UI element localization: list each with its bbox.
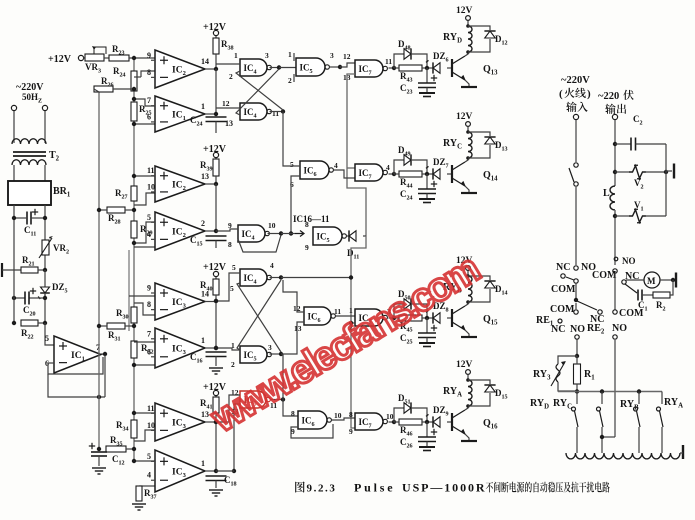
- label RYC contacts: [553, 398, 572, 411]
- junction R31 bus99: [97, 324, 101, 328]
- wire R out D: [394, 67, 399, 69]
- wire R26 right: [113, 88, 134, 90]
- cross wire latch1 b: [236, 71, 283, 110]
- wire contact RYB lower: [638, 427, 640, 453]
- wire collector D: [465, 52, 468, 56]
- pin 8 op 5: [147, 300, 151, 309]
- wire DZ to base C: [447, 173, 452, 175]
- relay coil RYD: [468, 26, 472, 52]
- svg-text:11: 11: [147, 404, 155, 413]
- pin 11 IC4b out: [272, 109, 279, 118]
- wire contact RYA lower: [661, 427, 663, 453]
- label D15: [495, 388, 508, 401]
- svg-text:12: 12: [343, 52, 351, 61]
- terminal +12V rail 4: [213, 390, 218, 395]
- caption figure number: [295, 482, 336, 495]
- nand gate IC5 b: [313, 227, 346, 245]
- svg-text:7: 7: [147, 329, 151, 338]
- relay coil RYC: [468, 132, 472, 158]
- pin 10 IC6c out: [334, 411, 342, 420]
- svg-text:9.2.3: 9.2.3: [307, 483, 337, 495]
- label R27: [115, 188, 128, 201]
- label D14: [495, 284, 508, 297]
- junction v291 on out wire: [289, 231, 293, 235]
- svg-text:COM: COM: [619, 308, 644, 319]
- contact RYD hook: [572, 407, 576, 411]
- contact COM re1 b: [574, 310, 578, 314]
- svg-text:NO: NO: [570, 324, 585, 335]
- label R44: [400, 177, 413, 190]
- wire BR1 out right: [44, 205, 46, 270]
- pin 7 op 2: [147, 96, 151, 105]
- wire IC5a to IC7a: [340, 63, 355, 67]
- svg-text:+12V: +12V: [48, 54, 72, 65]
- wire C2 branch: [615, 143, 631, 145]
- wire R28 right: [125, 209, 134, 211]
- label R40: [200, 280, 213, 293]
- label COM re2 top: [592, 270, 617, 281]
- wire IC6a out to IC7b: [334, 170, 356, 178]
- wire IC6b out to IC7c: [336, 315, 356, 317]
- wire emitter C: [465, 186, 469, 193]
- resistor R37: [136, 486, 142, 501]
- nand gate IC6 b: [304, 307, 335, 325]
- wire coil to bar: [680, 452, 683, 454]
- ground under R37: [132, 504, 146, 510]
- inductor L: [610, 186, 615, 210]
- nand gate IC5 d (red stamp): [240, 391, 270, 408]
- wire R out B: [394, 317, 399, 319]
- contact arm re1 mid: [577, 301, 597, 310]
- wire IC1 out down: [104, 355, 106, 397]
- label RYA contacts: [664, 397, 683, 410]
- wire flyback top A: [468, 380, 490, 384]
- wire +12V to R41: [215, 396, 217, 397]
- nand gate IC7 c: [355, 309, 387, 326]
- svg-text:5: 5: [45, 334, 49, 343]
- wire op 6 output: [205, 347, 216, 349]
- junction R31 bus134: [132, 324, 136, 328]
- wire emitter A: [465, 434, 469, 441]
- wire op 2 -in stub: [151, 121, 155, 123]
- wire IC5a pin1 stub: [293, 53, 295, 61]
- wire flyback top B: [468, 276, 490, 280]
- wire IC4a out to IC5a: [279, 67, 296, 69]
- wire output down: [614, 120, 616, 186]
- pin 2 IC7c: [349, 323, 353, 332]
- nand gate IC6 a: [300, 161, 333, 179]
- wire input down 2: [575, 186, 577, 265]
- label C2: [633, 114, 643, 127]
- flyback diode D15: [484, 385, 495, 392]
- terminal 12V B: [466, 266, 471, 271]
- label 12V B: [456, 256, 473, 266]
- op-amp IC1 #2: [155, 96, 205, 132]
- svg-text:2: 2: [231, 360, 235, 369]
- svg-text:3: 3: [265, 51, 269, 60]
- wire re2 NO down: [614, 339, 616, 437]
- diode D11: [349, 230, 356, 241]
- wire IC7 out row D: [389, 67, 395, 69]
- wire C20 row right: [29, 297, 45, 299]
- junction node R41: [214, 420, 218, 424]
- wire re2 com down: [614, 273, 616, 310]
- pin 6 IC6a: [290, 180, 294, 189]
- label NO re1 bot: [570, 324, 585, 335]
- junction C20 left: [12, 296, 16, 300]
- wire op 3 output: [205, 183, 216, 185]
- capacitor C24: [206, 117, 227, 122]
- label D50: [398, 289, 411, 302]
- wire R41 to node: [215, 413, 217, 422]
- junction IC4c out: [279, 231, 283, 235]
- resistor R2: [653, 292, 670, 298]
- wire cap stem D: [426, 68, 428, 83]
- svg-text:~220: ~220: [598, 91, 619, 102]
- label NC re2: [625, 271, 639, 282]
- wire v 291 g2 to IC6a: [291, 176, 300, 234]
- junction coil bottom B: [466, 300, 470, 304]
- diode D51: [404, 402, 411, 413]
- label R1: [584, 369, 595, 382]
- junction R35 bus134: [132, 447, 136, 451]
- wire secondary left to bridge: [13, 165, 15, 181]
- junction driver node D: [392, 66, 396, 70]
- pin 3 IC5a out: [330, 51, 334, 60]
- label +12V rail 1: [203, 22, 227, 33]
- junction bus392 b: [600, 389, 604, 393]
- wire R31 left: [99, 325, 107, 327]
- resistor R40: [213, 279, 219, 295]
- wire R28 left: [99, 209, 107, 211]
- potentiometer VR3: [85, 46, 106, 61]
- contact RYA hook: [657, 407, 661, 411]
- wire op 2 +in stub: [151, 105, 155, 107]
- junction driver node B: [392, 316, 396, 320]
- svg-text:13: 13: [201, 172, 209, 181]
- pin 13 IC6b: [294, 324, 302, 333]
- label DZ5: [52, 282, 68, 295]
- contact NO re2 top: [614, 257, 618, 261]
- wire IC6c out to IC7d: [332, 418, 356, 420]
- label RYB: [443, 282, 462, 295]
- wire op 4 -in stub: [151, 238, 155, 240]
- junction R35 bus99: [97, 447, 101, 451]
- wire pin8 op5 stub: [134, 303, 155, 315]
- svg-text:5: 5: [232, 263, 236, 272]
- label 50Hz: [22, 92, 42, 105]
- junction re1 com: [574, 298, 578, 302]
- svg-text:IC16—11: IC16—11: [293, 214, 330, 224]
- wire bypass up A: [394, 408, 404, 422]
- zener diode DZ8: [426, 310, 440, 323]
- nand gate IC4 c: [238, 225, 269, 242]
- label NO re2 bot: [612, 323, 627, 334]
- junction coil bottom A: [466, 404, 470, 408]
- resistor R39: [213, 159, 219, 176]
- wire op6 to IC5c: [216, 348, 240, 350]
- wire op 5 +in stub: [151, 292, 155, 294]
- junction IC4b out: [281, 109, 285, 113]
- pin 5 IC1: [45, 334, 49, 343]
- wire BR1 out left: [13, 205, 15, 270]
- wire IC1 output: [101, 353, 105, 355]
- pin 8 IC7d: [349, 410, 353, 419]
- junction cap node B: [425, 316, 429, 320]
- label D49: [398, 145, 411, 158]
- wire flyback top C: [468, 132, 490, 136]
- contact re1 nc small: [558, 319, 562, 323]
- label R30: [116, 308, 129, 321]
- arrow into IC5b: [295, 231, 304, 237]
- wire R38 to node: [215, 54, 217, 69]
- label shuchu (output) text: [605, 104, 626, 114]
- junction R22 right: [43, 321, 47, 325]
- varistor V2: [629, 165, 646, 179]
- label V2: [634, 178, 644, 191]
- capacitor C11: [27, 209, 38, 225]
- label RYD contacts: [530, 398, 549, 411]
- wire V1 branch: [615, 215, 629, 217]
- junction V2 left: [613, 170, 617, 174]
- terminal 12V A: [466, 370, 471, 375]
- svg-text:10: 10: [147, 421, 155, 430]
- wire VR3 to R23: [104, 57, 109, 59]
- contact NO re1 top: [574, 266, 578, 270]
- terminal +12V rail 1: [213, 30, 218, 35]
- cross wire latch1 a: [236, 69, 279, 115]
- label DZ9: [433, 405, 449, 418]
- wire IC4d out: [270, 277, 282, 279]
- wire bypass down B: [411, 304, 427, 318]
- label 12V D: [456, 6, 473, 16]
- label Q13: [483, 64, 498, 77]
- label R39: [200, 160, 213, 173]
- autotransformer winding: [566, 453, 680, 459]
- wire pin6 op6 stub: [134, 364, 155, 366]
- diode D49: [404, 154, 411, 165]
- label 12V C: [456, 112, 473, 122]
- transistor Q15: [452, 306, 465, 330]
- svg-text:COM: COM: [551, 284, 576, 295]
- wire IC4b out: [270, 111, 284, 113]
- pin 4 op 4: [147, 230, 151, 239]
- resistor R30: [131, 307, 137, 323]
- svg-text:NC: NC: [556, 262, 570, 273]
- svg-text:5: 5: [230, 284, 234, 293]
- junction coil top B: [466, 274, 470, 278]
- resistor R1: [574, 364, 581, 384]
- resistor R21: [21, 267, 38, 273]
- label D13: [495, 140, 508, 153]
- junction coil top C: [466, 130, 470, 134]
- nand gate IC4 b: [240, 103, 271, 120]
- resistor R24: [131, 71, 137, 91]
- resistor R34: [131, 420, 137, 438]
- wire flyback top D: [468, 26, 490, 30]
- label R41: [200, 398, 213, 411]
- wire bus x134 upper: [133, 57, 135, 250]
- junction pin11b node: [132, 411, 136, 415]
- wire mains N down: [44, 111, 46, 143]
- label R38: [221, 39, 234, 52]
- junction driver node A: [392, 420, 396, 424]
- wire R2 up to bar: [670, 280, 673, 295]
- wire cap gnd stem A: [426, 442, 428, 448]
- terminal mains L: [11, 105, 16, 110]
- wire op 8 +in stub: [151, 460, 155, 462]
- svg-text:2: 2: [201, 219, 205, 228]
- wire bus x134 lower: [133, 250, 135, 461]
- flyback diode D14: [484, 281, 495, 288]
- wire inhibit vertical upper: [347, 74, 366, 236]
- diode D50: [404, 298, 411, 309]
- wire inhibit to IC7c pin2: [351, 322, 355, 324]
- wire node to IC1 pin5: [45, 323, 54, 345]
- junction inhibit IC7c: [349, 321, 353, 325]
- junction pin7 node: [132, 97, 136, 101]
- wire DZ to base B: [447, 317, 452, 319]
- wire inhibit vertical lower: [351, 236, 366, 428]
- wire V2 right: [645, 171, 666, 173]
- ground under C18: [209, 490, 223, 496]
- contact arm re1 top: [566, 277, 574, 280]
- wire C1 to R2: [642, 294, 653, 296]
- wire R out C: [394, 173, 399, 175]
- label NC re1 bot: [551, 324, 565, 335]
- wire op 4 output: [205, 230, 216, 232]
- junction cap node C: [425, 172, 429, 176]
- wire re1 NO down: [576, 339, 578, 356]
- svg-text:8: 8: [349, 410, 353, 419]
- transformer T2 secondary winding: [12, 160, 46, 165]
- wire right rail vertical: [665, 144, 667, 216]
- svg-text:12: 12: [222, 99, 230, 108]
- wire ry3 branch bottom: [558, 382, 577, 391]
- svg-text:1: 1: [201, 459, 205, 468]
- junction bus392 c: [637, 389, 641, 393]
- wire DZ to base D: [447, 67, 452, 69]
- label RYB contacts: [620, 399, 639, 412]
- label Q16: [483, 418, 498, 431]
- wire contact RYD upper: [576, 392, 578, 405]
- relay coil RYB: [468, 276, 472, 302]
- terminal +12V rail 3: [213, 271, 218, 276]
- resistor R25: [131, 102, 137, 121]
- svg-text:1: 1: [234, 51, 238, 60]
- wire bypass up D: [394, 54, 404, 68]
- wire R22 right: [38, 322, 45, 324]
- wire collector C: [465, 158, 468, 162]
- pin 8 op 1: [147, 68, 151, 77]
- wire op1 to IC4a pin1: [216, 63, 240, 65]
- wire re2 NO to RYC: [602, 436, 615, 438]
- pin 1 out op 6: [201, 336, 205, 345]
- zener diode DZ9: [426, 414, 440, 427]
- junction op8 node link: [232, 469, 236, 473]
- svg-text:5: 5: [147, 213, 151, 222]
- op-amp IC3 #6: [155, 328, 205, 368]
- label R35: [110, 435, 123, 448]
- capacitor C1: [638, 290, 642, 301]
- nand gate IC5 a: [296, 58, 329, 76]
- capacitor C15: [206, 236, 227, 241]
- svg-text:4: 4: [334, 161, 338, 170]
- svg-text:11: 11: [385, 57, 392, 66]
- pin 9 IC4c: [228, 221, 232, 230]
- resistor R45: [399, 315, 422, 321]
- wire bypass down D: [411, 54, 427, 68]
- ground emitter A: [461, 440, 477, 442]
- wire pin8 op1 riser: [141, 71, 155, 77]
- wire IC6c feedback loop: [291, 424, 333, 438]
- label T2: [49, 150, 60, 163]
- contact COM re2 b: [613, 310, 617, 314]
- svg-text:11: 11: [147, 166, 155, 175]
- wire IC5a pin2 stub: [293, 74, 295, 82]
- junction M right: [671, 278, 675, 282]
- nand gate IC7 a: [355, 60, 387, 77]
- wire collector A: [465, 406, 468, 410]
- junction pin6 node: [132, 122, 136, 126]
- junction C2 top: [613, 142, 617, 146]
- wire +12V to R38: [215, 36, 217, 38]
- wire C16 stem: [215, 357, 217, 367]
- label +12V rail 2: [203, 144, 227, 155]
- pin 1 IC4a: [234, 51, 238, 60]
- svg-text:NO: NO: [622, 256, 636, 266]
- wire IC4d out to inhibit: [281, 277, 351, 279]
- pin 2 IC4a: [229, 72, 233, 81]
- pin 14 out op 5: [201, 290, 209, 299]
- label V1: [634, 200, 644, 213]
- wire v 283 g1 to IC6a: [283, 112, 300, 167]
- resistor R28: [107, 207, 125, 213]
- flyback diode D13: [484, 137, 495, 144]
- wire C15 stem: [215, 241, 217, 249]
- svg-text:8: 8: [147, 68, 151, 77]
- ground cap A: [419, 447, 435, 451]
- label R23: [112, 44, 125, 57]
- bridge rectifier BR1: [8, 181, 51, 205]
- junction op7 node: [214, 420, 218, 424]
- junction op6 out: [214, 346, 218, 350]
- op-amp IC3 #8: [155, 450, 205, 492]
- label R37: [144, 488, 157, 501]
- wire IC7 out row C: [389, 173, 395, 175]
- capacitor C26: [418, 429, 437, 442]
- svg-text:11: 11: [334, 307, 341, 316]
- pin 13 out op 7: [201, 410, 209, 419]
- label BR1: [53, 186, 71, 199]
- pin 10 op 3: [147, 182, 155, 191]
- zener diode DZ7: [426, 166, 440, 179]
- transistor Q16: [452, 410, 465, 434]
- wire op 8 output: [205, 470, 216, 472]
- junction node R38: [214, 67, 218, 71]
- wire R21 to node: [38, 269, 45, 271]
- label D51: [398, 393, 411, 406]
- wire contact RYC lower: [601, 427, 603, 453]
- label RY3: [533, 369, 551, 382]
- svg-text:L: L: [603, 188, 610, 199]
- label RE1: [536, 315, 554, 328]
- wire flyback bottom C: [468, 145, 490, 158]
- op-amp IC2 #4: [155, 212, 205, 250]
- junction pin5b node: [132, 459, 136, 463]
- pin 11 IC7a out: [385, 57, 392, 66]
- svg-text:8: 8: [147, 300, 151, 309]
